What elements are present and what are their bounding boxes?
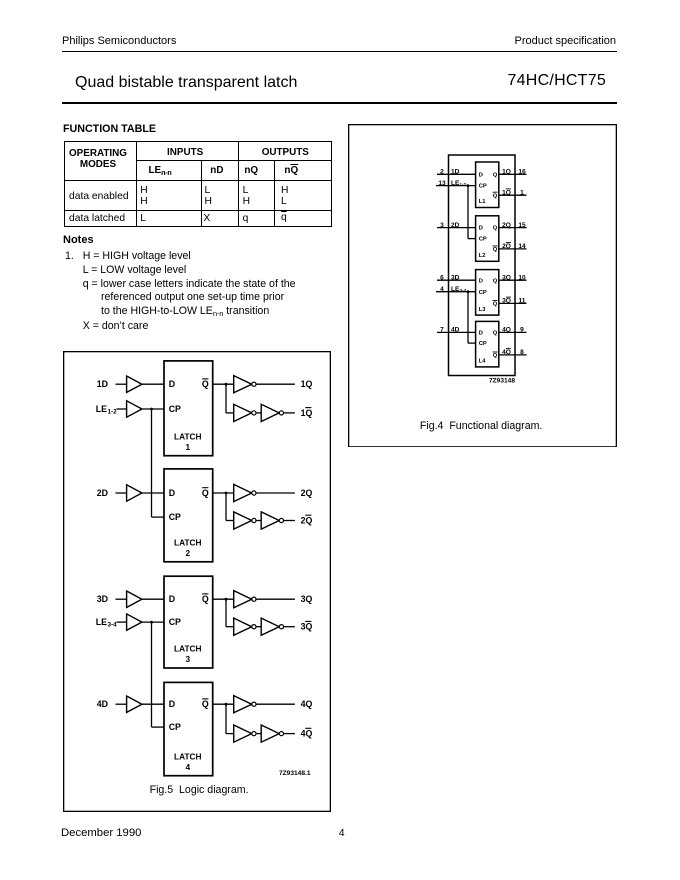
fig5 container [63,351,331,812]
input LE3-4 label [96,617,117,629]
wire 3D to buffer [116,598,127,600]
wire to 2Q label [256,492,295,494]
inverter 3Q path [234,590,252,607]
fig5 outer frame [64,351,331,811]
cell L [140,213,146,224]
svg-text:Q: Q [493,225,498,231]
wire latch 1 Qbar to inverters with junction [213,382,234,412]
wire latch 3 Qbar to inverters with junction [213,597,234,626]
svg-text:4D: 4D [97,699,108,709]
svg-text:Fig.5 Logic diagram.: Fig.5 Logic diagram. [150,784,249,796]
latch 1 labels D CP Qbar [169,378,209,451]
output 4Qbar label [301,728,313,738]
svg-text:3-4: 3-4 [108,621,118,628]
svg-text:16: 16 [518,168,526,175]
svg-text:L3: L3 [479,306,487,312]
svg-text:D: D [479,172,483,178]
inverter 3Qbar first [234,618,252,635]
svg-text:D: D [479,278,483,284]
cell nD [210,165,223,176]
cell INPUTS [167,147,203,158]
wire to 3Qbar label [283,625,295,627]
svg-text:LATCH: LATCH [174,431,202,441]
wire LE branch down to latch CP below [152,409,165,517]
svg-text:4: 4 [440,285,444,292]
svg-text:D: D [169,487,175,497]
svg-text:3Q: 3Q [502,274,511,281]
svg-text:4D: 4D [451,326,460,333]
wire 2D to buffer [116,492,127,494]
svg-text:9: 9 [520,326,524,333]
inverter 3Qbar second [261,618,279,635]
wire LE3-4 input (pin 4) with branch to L4 CP [436,285,476,342]
buffer 3D [127,591,142,607]
svg-text:2D: 2D [97,487,108,497]
input LE1-2 label [96,403,117,415]
wire 3D input (pin 6) [437,274,476,281]
svg-text:LATCH: LATCH [174,751,202,761]
svg-text:CP: CP [169,512,181,522]
svg-text:CP: CP [169,403,181,413]
wire between inverters [256,411,261,413]
svg-text:Q: Q [493,278,498,284]
cell nQ L H [243,185,250,208]
svg-text:7: 7 [440,326,444,333]
svg-text:LATCH: LATCH [174,537,202,547]
inverter 1Qbar first [234,404,252,421]
header rule [62,51,617,53]
svg-text:Q: Q [493,330,498,336]
latch LATCH 3 [164,576,213,668]
svg-text:1Q: 1Q [502,168,511,175]
latch L1 [476,162,499,208]
IC package outline [449,155,516,376]
svg-text:CP: CP [479,236,487,242]
header right text [515,35,617,47]
svg-text:1-2: 1-2 [108,408,118,415]
wire to 1Q label [256,383,295,385]
table vline inputs/outputs [238,141,239,227]
cell LE H H [140,185,147,208]
svg-text:3Q: 3Q [301,621,313,631]
wire buffer to latch 1 D [142,383,164,385]
wire between inverters [256,519,261,521]
svg-text:3D: 3D [451,274,460,281]
svg-text:D: D [169,699,175,709]
fig4 container [348,124,617,448]
inverter 4Qbar second [261,725,279,742]
svg-text:2: 2 [440,168,444,175]
svg-text:CP: CP [479,289,487,295]
header left text [62,35,176,47]
svg-text:L2: L2 [479,253,486,259]
wire 2Qbar output (pin 14) [499,242,527,250]
svg-text:1Q: 1Q [301,407,313,417]
svg-text:Q: Q [493,172,498,178]
svg-text:1D: 1D [451,168,460,175]
wire between inverters [256,732,261,734]
wire latch 4 Qbar to inverters with junction [213,702,234,733]
svg-text:4: 4 [185,761,190,771]
svg-text:15: 15 [518,221,526,228]
table hline under header [64,180,332,181]
svg-text:Q: Q [493,301,498,307]
svg-text:10: 10 [518,274,526,281]
buffer LE3-4 [127,613,142,629]
svg-text:3: 3 [185,654,190,664]
wire LE1-2 to buffer [117,408,127,410]
wire 4Qbar output (pin 8) [499,348,527,356]
inverter 1Qbar second [261,404,279,421]
svg-text:CP: CP [479,341,487,347]
table vline nQ/nQbar [274,160,275,227]
svg-text:2Q: 2Q [301,515,313,525]
svg-text:Q: Q [202,594,209,604]
inverter 2Qbar first [234,511,252,528]
svg-text:14: 14 [518,243,526,250]
title rule [62,102,617,104]
title [75,74,297,92]
wire latch 2 Qbar to inverters with junction [213,491,234,520]
latch LATCH 1 [164,360,213,455]
svg-text:3: 3 [440,221,444,228]
svg-text:2Q: 2Q [301,487,313,497]
wire LE branch down to latch CP below [152,622,165,727]
cell data enabled [69,191,129,202]
cell q [243,213,249,224]
wire buffer to latch 4 D [142,703,164,705]
wire buffer to latch 3 D [142,598,164,600]
wire to 2Qbar label [283,519,295,521]
svg-text:D: D [169,594,175,604]
fig4 outer frame [349,124,617,446]
cell nD L H [205,185,212,208]
inverter 4Qbar first [234,725,252,742]
svg-text:Q: Q [202,487,209,497]
svg-text:L4: L4 [479,358,487,364]
svg-text:3D: 3D [97,594,108,604]
latch L4 [476,321,499,367]
inverter 2Q path [234,484,252,501]
wire 2D input (pin 3) [437,221,476,228]
output 2Qbar label [301,515,313,525]
cell X [203,213,210,224]
wire buffer to latch 3 CP with junction [142,620,164,623]
svg-text:3Q: 3Q [301,594,313,604]
svg-text:4Q: 4Q [502,349,511,356]
wire buffer to latch 1 CP with junction [142,407,164,410]
latch L3 [476,269,499,315]
table vline LE/nD [201,160,202,227]
footer date [61,827,141,839]
cell nQ [244,165,258,176]
svg-text:6: 6 [440,274,444,281]
latch LATCH 2 [164,468,213,561]
Notes heading [63,234,94,246]
svg-text:1D: 1D [97,379,108,389]
svg-text:4Q: 4Q [301,728,313,738]
cell data latched [69,213,125,224]
svg-text:3-4: 3-4 [460,288,467,293]
svg-text:CP: CP [479,183,487,189]
latch L1 pin labels D CP Q Qbar [479,172,498,205]
buffer LE1-2 [127,400,142,416]
part number [507,72,606,90]
wire 1D to buffer [116,383,127,385]
inverter 2Qbar second [261,511,279,528]
svg-text:D: D [169,379,175,389]
svg-text:2D: 2D [451,221,460,228]
svg-text:8: 8 [520,349,524,356]
wire to 4Qbar label [283,732,295,734]
svg-text:1: 1 [520,189,524,196]
svg-text:LATCH: LATCH [174,643,202,653]
wire 1Qbar output (pin 1) [499,188,527,196]
cell nQbar H L [281,185,288,208]
wire 4D input (pin 7) [437,326,476,333]
latch L3 pin labels D CP Q Qbar [479,278,498,313]
latch LATCH 4 [164,682,213,775]
inverter 1Q path [234,375,252,392]
latch 3 labels D CP Qbar [169,593,209,663]
cell qbar [281,212,287,223]
svg-text:Q: Q [493,353,498,359]
svg-text:7Z93148.1: 7Z93148.1 [279,770,311,777]
svg-text:Q: Q [493,193,498,199]
cell LEn-n [149,165,172,177]
latch L4 pin labels D CP Q Qbar [479,330,498,364]
table outer border [64,141,332,227]
svg-text:4Q: 4Q [301,699,313,709]
svg-text:1: 1 [185,441,190,451]
output 1Qbar label [301,407,313,417]
svg-text:Q: Q [493,247,498,253]
notes list [65,250,296,334]
table hline under data enabled [64,210,332,211]
wire 3Qbar output (pin 11) [499,297,527,305]
wire to 3Q label [256,598,295,600]
svg-text:CP: CP [169,722,181,732]
cell OUTPUTS [262,147,309,158]
svg-text:CP: CP [169,617,181,627]
svg-text:Q: Q [202,379,209,389]
svg-text:2Q: 2Q [502,221,511,228]
svg-text:1-2: 1-2 [460,182,467,187]
inverter 4Q path [234,695,252,712]
svg-text:D: D [479,225,483,231]
svg-text:D: D [479,330,483,336]
svg-text:LE: LE [96,617,107,627]
latch L2 pin labels D CP Q Qbar [479,225,498,258]
wire between inverters [256,625,261,627]
wire 2Q output (pin 15) [499,221,527,228]
latch L2 [476,215,499,260]
output 3Qbar label [301,621,313,631]
svg-text:Q: Q [202,699,209,709]
buffer 1D [127,376,142,392]
buffer 2D [127,484,142,500]
wire 4Q output (pin 9) [499,326,527,333]
svg-text:11: 11 [519,297,526,304]
wire LE1-2 input (pin 13) with branch to L2 CP [436,179,476,238]
FUNCTION TABLE heading [63,123,156,135]
svg-text:2Q: 2Q [502,243,511,250]
svg-text:LE: LE [96,403,107,413]
cell nQbar [284,165,298,176]
svg-text:3Q: 3Q [502,297,511,304]
latch 4 labels D CP Qbar [169,698,209,771]
latch 2 labels D CP Qbar [169,487,209,557]
svg-text:2: 2 [185,547,190,557]
buffer 4D [127,696,142,712]
function table [64,141,332,227]
wire 3Q output (pin 10) [499,274,527,281]
wire to 4Q label [256,703,295,705]
svg-text:1Q: 1Q [301,379,313,389]
svg-text:7Z93148: 7Z93148 [489,377,515,384]
table hline under INPUTS [136,160,333,161]
wire 1Q output (pin 16) [499,168,527,175]
svg-text:13: 13 [438,179,446,186]
wire buffer to latch 2 D [142,492,164,494]
table vline col0/col1 [136,141,137,227]
wire 4D to buffer [116,703,127,705]
wire LE3-4 to buffer [117,621,127,623]
wire to 1Qbar label [283,411,295,413]
footer page number [339,827,345,839]
svg-text:1Q: 1Q [502,189,511,196]
svg-text:Fig.4 Functional diagram.: Fig.4 Functional diagram. [420,419,542,431]
wire 1D input (pin 2) [437,168,476,175]
svg-text:4Q: 4Q [502,326,511,333]
svg-text:L1: L1 [479,199,487,205]
cell OPERATING MODES [64,149,132,170]
